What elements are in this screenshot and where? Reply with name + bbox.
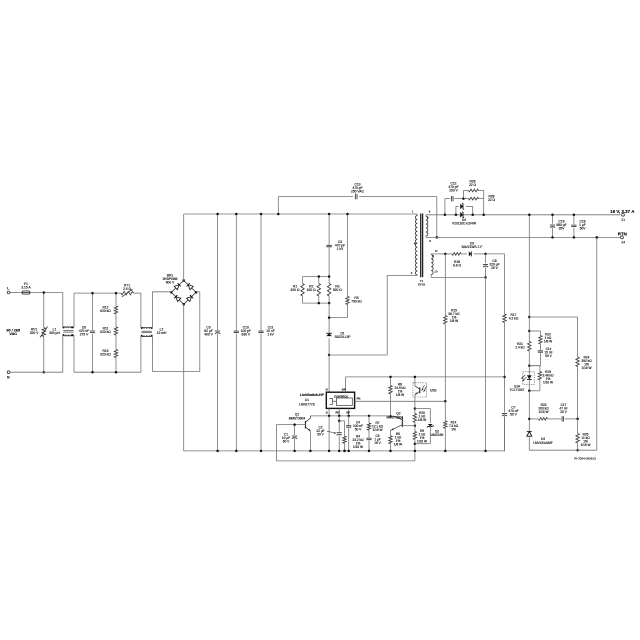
- svg-text:750 kΩ: 750 kΩ: [351, 299, 362, 303]
- common mode choke L2 13 mH: [140, 293, 142, 328]
- svg-text:16 V: 16 V: [374, 441, 381, 445]
- svg-text:25 V: 25 V: [560, 410, 567, 414]
- capacitor C10 100 pF 630 V: [235, 214, 237, 330]
- svg-text:630 V: 630 V: [241, 332, 250, 336]
- svg-text:1/8 W: 1/8 W: [450, 319, 458, 323]
- resistor R26 22 ohm: [462, 191, 464, 199]
- capacitor C3 470 pF 1 kV (clamp): [328, 214, 330, 245]
- snubber C12 470 pF 200 V: [444, 199, 446, 215]
- wire: [115, 314, 117, 327]
- wire: LED cathode down to U4: [528, 391, 530, 431]
- wire: feedback ground: [529, 449, 597, 451]
- wire: C1 branch return route: [275, 425, 277, 461]
- svg-text:50 V: 50 V: [545, 354, 552, 358]
- wire: bridge AC connections: [152, 291, 171, 293]
- svg-text:50 V: 50 V: [317, 432, 324, 436]
- wire: S pin to ground: [328, 416, 330, 451]
- svg-text:1/16 W: 1/16 W: [580, 443, 590, 447]
- svg-text:400 V: 400 V: [204, 332, 213, 336]
- resistor R4 23.2 kOhm: [339, 420, 344, 422]
- wire: B- from bridge: [183, 304, 185, 451]
- varistor RV1 320 V: [43, 293, 45, 328]
- svg-text:U2B: U2B: [430, 389, 437, 393]
- optocoupler U2B: [413, 383, 427, 397]
- svg-text:620 Ω: 620 Ω: [333, 288, 342, 292]
- svg-text:50 V: 50 V: [355, 427, 362, 431]
- output capacitor C18 1 uF 50V: [573, 215, 575, 224]
- zener diode D2: [415, 408, 430, 410]
- svg-text:620 kΩ: 620 kΩ: [100, 309, 111, 313]
- output diode D4 V20120C-E2/4W: [455, 206, 457, 214]
- capacitor C7 470 nF 50 V (bypass): [504, 377, 506, 413]
- svg-text:PD: PD: [335, 410, 339, 414]
- svg-text:1/16 W: 1/16 W: [543, 380, 553, 384]
- wire: bottom control bus: [329, 415, 390, 417]
- thermistor RT1 2.5 ohm: [121, 291, 134, 294]
- wire: BP bus: [346, 376, 505, 378]
- diode D3 BAV21WS-7-F: [469, 251, 472, 256]
- terminal L: [7, 291, 10, 294]
- svg-text:U1: U1: [305, 398, 309, 402]
- svg-text:BAV21WS-7-F: BAV21WS-7-F: [462, 245, 483, 249]
- svg-text:XP: XP: [346, 410, 350, 414]
- resistor R14 7.5 kOhm: [444, 401, 446, 421]
- svg-text:1 kV: 1 kV: [337, 247, 344, 251]
- pin FB: [355, 400, 446, 402]
- resistor R9 1 kOhm: [414, 426, 416, 432]
- fuse F1 3.15 A: [22, 291, 30, 294]
- node: drain: [328, 354, 331, 357]
- capacitor C8 220 uF 25 V: [485, 254, 487, 263]
- svg-text:1/16 W: 1/16 W: [372, 428, 382, 432]
- svg-text:2.4 kΩ: 2.4 kΩ: [515, 345, 525, 349]
- bias supply: wire: [434, 253, 445, 255]
- wire: sense to R21: [528, 317, 530, 331]
- svg-text:S: S: [326, 410, 328, 414]
- svg-text:50V: 50V: [580, 227, 587, 231]
- svg-text:LMV431AIMF: LMV431AIMF: [533, 441, 553, 445]
- wire: RTN vertical to feedback ground: [596, 237, 598, 450]
- wire: filter box top edge: [74, 292, 121, 294]
- wire: [115, 358, 117, 373]
- svg-text:1/8 W: 1/8 W: [544, 339, 552, 343]
- svg-text:LinkSwitch-HP: LinkSwitch-HP: [300, 393, 324, 397]
- wire: filter box bottom edge: [74, 371, 141, 373]
- wire: opto emitter down: [414, 401, 416, 408]
- resistor R6 1 kOhm: [390, 431, 392, 436]
- svg-text:6.8 Ω: 6.8 Ω: [453, 264, 461, 268]
- secondary sense line from output: [528, 215, 530, 317]
- svg-text:D: D: [326, 388, 328, 392]
- svg-text:10: 10: [435, 269, 438, 273]
- capacitor C5 1 uF 16 V: [366, 437, 371, 439]
- node: FB junction with R15/R14: [444, 400, 447, 403]
- svg-text:2.5 Ω: 2.5 Ω: [123, 287, 131, 291]
- wire: AC line input top: [10, 292, 22, 294]
- transistor Q2 MMST3904: [401, 417, 403, 427]
- svg-text:50 V: 50 V: [283, 439, 290, 443]
- transformer T1 EF25: [420, 214, 422, 278]
- svg-text:620 Ω: 620 Ω: [291, 288, 300, 292]
- svg-text:V20120C-E2/4W: V20120C-E2/4W: [452, 221, 476, 225]
- capacitor C4 100 nF 50 V: [348, 416, 350, 425]
- shunt regulator U4 LMV431AIMF: [527, 432, 532, 437]
- wire: primary ground rail: [184, 450, 505, 452]
- common mode choke L1 300 uH: [62, 293, 64, 328]
- pin S: [328, 408, 330, 416]
- svg-text:300 µH: 300 µH: [49, 331, 60, 335]
- wire: AC neutral input: [10, 371, 63, 373]
- transformer secondary winding: [426, 216, 428, 236]
- wire: drain to U1: [328, 355, 330, 392]
- svg-text:3.15 A: 3.15 A: [21, 286, 31, 290]
- svg-text:UMZ24N: UMZ24N: [431, 433, 444, 437]
- resistor R20 1 kOhm: [414, 409, 416, 414]
- pin BP: [345, 377, 347, 392]
- svg-text:LNK6777E: LNK6777E: [299, 402, 316, 406]
- svg-text:25 V: 25 V: [491, 266, 499, 270]
- capacitor C9 82 uF 400 V: [217, 214, 219, 330]
- wire: Q1 collector to S bus: [310, 415, 329, 417]
- resistor R13 620 kOhm: [114, 350, 117, 358]
- svg-text:1/8 W: 1/8 W: [418, 418, 426, 422]
- resistor R25 11 kOhm: [577, 419, 579, 434]
- wire: B+ from bridge: [183, 214, 185, 281]
- svg-text:PI-7024-032613: PI-7024-032613: [574, 457, 596, 461]
- svg-text:24: 24: [621, 240, 625, 244]
- transistor Q1 MMST3904: [304, 421, 306, 429]
- capacitor C13 470 pF 250 VAC (Y cap): [277, 197, 279, 215]
- svg-text:1/16 W: 1/16 W: [581, 366, 591, 370]
- optocoupler U2A TCLT1007 LED: [523, 372, 535, 385]
- diode D1 clamp: [326, 333, 332, 336]
- svg-text:VAC: VAC: [9, 332, 17, 336]
- IC U1 LinkSwitch-HP LNK6777E: [326, 392, 354, 408]
- svg-text:1 kV: 1 kV: [267, 332, 274, 336]
- svg-text:620 kΩ: 620 kΩ: [100, 352, 111, 356]
- wire: bias winding return: [431, 276, 485, 278]
- svg-text:50 V: 50 V: [510, 412, 518, 416]
- svg-text:21: 21: [621, 218, 625, 222]
- svg-text:4.2 kΩ: 4.2 kΩ: [509, 316, 519, 320]
- svg-text:1/16 W: 1/16 W: [353, 445, 363, 449]
- wire: link to R24: [529, 316, 577, 318]
- svg-text:600 V: 600 V: [166, 280, 175, 284]
- svg-text:TCLT1007: TCLT1007: [510, 388, 525, 392]
- svg-text:22 Ω: 22 Ω: [488, 198, 496, 202]
- pin PD: [338, 408, 340, 416]
- wire: [115, 335, 117, 350]
- svg-text:1/16 W: 1/16 W: [417, 439, 427, 443]
- svg-text:200 V: 200 V: [449, 188, 458, 192]
- wire: secondary return rail RTN: [429, 236, 621, 238]
- resistor R7 12.1 kOhm: [368, 416, 370, 423]
- svg-text:13 mH: 13 mH: [157, 331, 167, 335]
- svg-text:1%: 1%: [451, 427, 456, 431]
- output capacitor C19 680 uF 25V: [552, 215, 554, 224]
- wire: secondary output rail: [429, 214, 621, 216]
- pin XP: [348, 408, 350, 416]
- terminal N: [7, 371, 10, 374]
- resistor R11 620 kOhm: [114, 327, 117, 335]
- svg-text:620 Ω: 620 Ω: [307, 288, 316, 292]
- svg-text:1/8 W: 1/8 W: [396, 393, 404, 397]
- svg-text:FB: FB: [357, 396, 361, 400]
- wire: bias return to primary ground: [485, 277, 487, 451]
- wire: bias rail: [486, 253, 505, 255]
- resistor R28 22 ohm: [469, 197, 479, 200]
- resistor R17 4.2 kOhm: [504, 254, 506, 314]
- svg-text:1/8 W: 1/8 W: [394, 442, 402, 446]
- wire: clamp to D1: [328, 303, 330, 333]
- capacitor C6 470 nF 275 V: [92, 293, 94, 330]
- transformer bias winding: [431, 255, 433, 275]
- svg-text:22 Ω: 22 Ω: [469, 183, 477, 187]
- svg-text:250 VAC: 250 VAC: [351, 190, 365, 194]
- svg-text:275 V: 275 V: [80, 332, 89, 336]
- clamp resistors R1 R2 R3 620 ohm: [303, 276, 330, 278]
- resistor R22 1 kOhm + C14 15 nF: [529, 330, 540, 332]
- wire: B+ rail: [184, 213, 413, 215]
- svg-text:BP: BP: [342, 388, 346, 392]
- svg-text:MMST3904: MMST3904: [289, 416, 306, 420]
- svg-text:L: L: [7, 286, 9, 290]
- svg-text:11: 11: [435, 249, 438, 253]
- resistor R21 2.4 kOhm: [528, 331, 530, 342]
- capacitor C2 22 uF 50 V: [338, 416, 340, 421]
- resistor R15 56.7 kOhm: [444, 254, 446, 316]
- svg-text:S0220-L3P: S0220-L3P: [335, 335, 351, 339]
- resistor R24 392 kOhm: [576, 357, 579, 367]
- svg-text:EF25: EF25: [418, 283, 426, 287]
- svg-text:620 kΩ: 620 kΩ: [100, 330, 111, 334]
- resistor R23 200 kOhm + capacitor C17 47 nF: [529, 418, 538, 420]
- svg-text:320 V: 320 V: [30, 331, 39, 335]
- capacitor C1 10 uF 50 V: [294, 425, 296, 435]
- resistor R12 620 kOhm: [115, 293, 117, 306]
- resistor R8 24.9 kOhm: [390, 377, 392, 386]
- resistor R19 3.48 kOhm across LED: [529, 365, 540, 367]
- resistor R18 6.8 ohm: [445, 253, 452, 255]
- capacitor C11 10 nF 1 kV: [260, 214, 262, 330]
- svg-text:1/16 W: 1/16 W: [538, 410, 548, 414]
- resistor R5 750 kOhm: [347, 214, 349, 297]
- wire: primary ground rail right end up to C7: [504, 450, 507, 452]
- svg-text:25V: 25V: [559, 227, 566, 231]
